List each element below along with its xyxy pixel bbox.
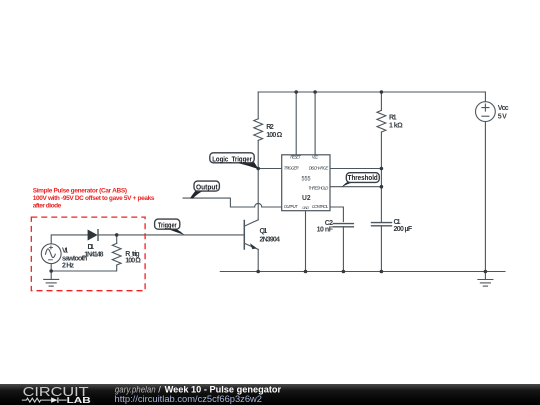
svg-text:V1: V1 bbox=[62, 248, 68, 255]
svg-text:Simple Pulse generator (Car AB: Simple Pulse generator (Car ABS) bbox=[33, 187, 127, 194]
svg-text:Q1: Q1 bbox=[260, 228, 268, 235]
svg-text:http://circuitlab.com/cz5cf66p: http://circuitlab.com/cz5cf66p3z6w2 bbox=[115, 393, 263, 404]
svg-text:D1: D1 bbox=[88, 244, 95, 251]
svg-text:200 µF: 200 µF bbox=[394, 226, 413, 233]
svg-text:555: 555 bbox=[302, 176, 311, 183]
svg-text:VCC: VCC bbox=[312, 154, 319, 159]
svg-text:10 nF: 10 nF bbox=[317, 227, 334, 234]
svg-text:Logic_Trigger: Logic_Trigger bbox=[212, 156, 252, 163]
svg-text:RESET: RESET bbox=[290, 154, 301, 159]
svg-text:after diode: after diode bbox=[33, 202, 62, 209]
svg-text:100 Ω: 100 Ω bbox=[266, 132, 282, 139]
svg-text:5 V: 5 V bbox=[498, 114, 507, 121]
svg-text:THRESHOLD: THRESHOLD bbox=[308, 185, 328, 190]
svg-text:CONTROL: CONTROL bbox=[312, 204, 329, 209]
svg-text:1 kΩ: 1 kΩ bbox=[389, 123, 403, 130]
svg-text:GND: GND bbox=[302, 206, 309, 210]
svg-text:R2: R2 bbox=[266, 124, 274, 131]
svg-text:Trigger: Trigger bbox=[158, 223, 177, 230]
svg-text:OUTPUT: OUTPUT bbox=[284, 204, 298, 209]
svg-text:100 Ω: 100 Ω bbox=[125, 258, 141, 265]
svg-text:100V with -95V DC offset to ga: 100V with -95V DC offset to gave 5V + pe… bbox=[33, 195, 155, 202]
svg-text:2 Hz: 2 Hz bbox=[62, 263, 75, 270]
svg-text:DISCHARGE: DISCHARGE bbox=[309, 165, 329, 170]
svg-text:R1: R1 bbox=[389, 114, 397, 121]
svg-text:Threshold: Threshold bbox=[348, 175, 378, 182]
svg-text:2N3904: 2N3904 bbox=[260, 237, 280, 244]
svg-text:1N4148: 1N4148 bbox=[84, 251, 103, 258]
svg-text:LAB: LAB bbox=[67, 395, 91, 405]
svg-text:Vcc: Vcc bbox=[498, 105, 509, 112]
svg-text:Output: Output bbox=[196, 184, 218, 191]
svg-text:U2: U2 bbox=[302, 193, 311, 202]
svg-text:TRIGGER: TRIGGER bbox=[284, 165, 299, 170]
